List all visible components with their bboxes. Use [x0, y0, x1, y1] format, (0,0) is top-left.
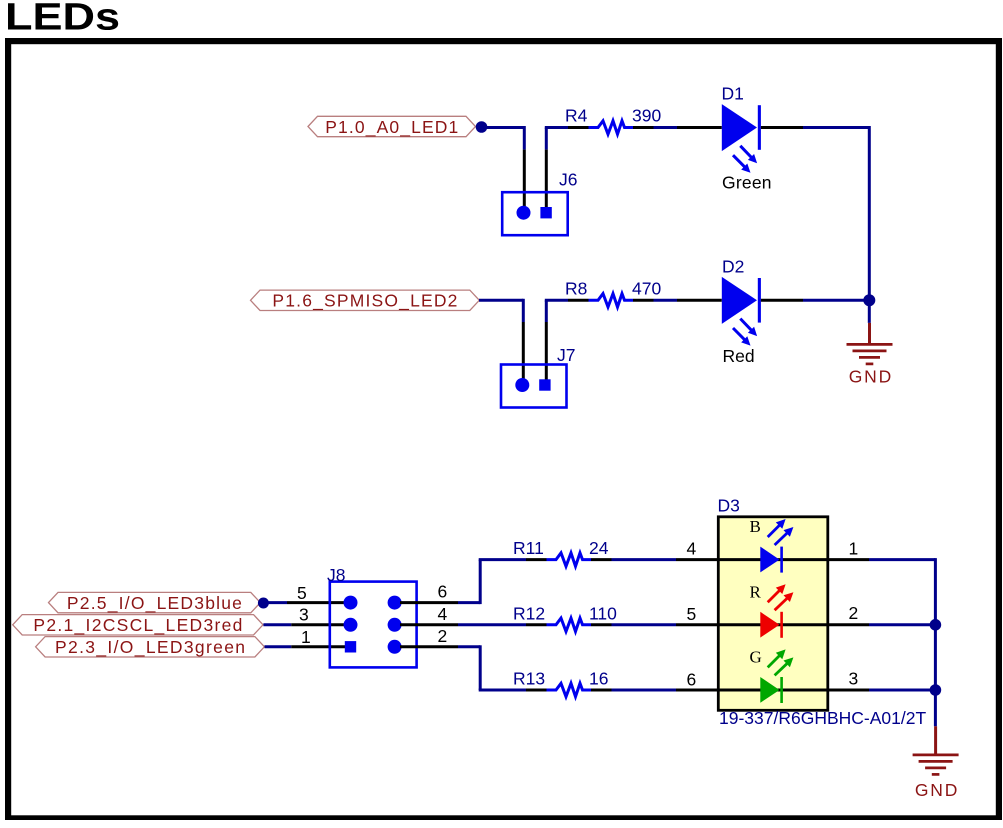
- pin number 3: [849, 669, 859, 689]
- value 470: [632, 279, 661, 299]
- designator R12: [513, 603, 545, 623]
- net label P1.0_A0_LED1: [308, 116, 476, 138]
- label Red: [723, 346, 755, 366]
- svg-text:19-337/R6GHBHC-A01/2T: 19-337/R6GHBHC-A01/2T: [719, 708, 926, 728]
- wire D3 pin 3 to GND bus: [869, 689, 935, 692]
- wire P2.5 to J8 pin 5: [263, 601, 287, 604]
- svg-text:6: 6: [438, 582, 448, 602]
- pin number 2: [438, 626, 448, 646]
- svg-text:P2.3_I/O_LED3green: P2.3_I/O_LED3green: [55, 637, 245, 658]
- J8 pin 4 lead: [400, 623, 458, 626]
- pin number 1: [849, 539, 859, 559]
- svg-text:5: 5: [687, 604, 697, 624]
- D3 pin 6 lead: [676, 689, 719, 692]
- value 16: [589, 669, 608, 689]
- svg-text:GND: GND: [915, 780, 958, 800]
- svg-text:4: 4: [438, 604, 448, 624]
- pin number 4: [687, 539, 697, 559]
- J6 pin 1 lead: [523, 150, 526, 207]
- resistor R13: [526, 683, 612, 696]
- resistor R12: [526, 618, 612, 631]
- svg-text:3: 3: [299, 605, 309, 625]
- svg-text:R12: R12: [513, 603, 545, 623]
- designator R8: [565, 279, 587, 299]
- svg-text:J8: J8: [327, 565, 345, 585]
- resistor R4: [568, 121, 654, 134]
- wire from J6 pin 2 to R4: [545, 128, 568, 150]
- svg-text:110: 110: [589, 603, 617, 623]
- value 390: [632, 106, 661, 126]
- junction dot pin3/bus: [930, 684, 942, 696]
- pin number 5: [687, 604, 697, 624]
- svg-text:J6: J6: [559, 170, 577, 190]
- value 110: [589, 603, 617, 623]
- svg-text:4: 4: [687, 539, 697, 559]
- svg-text:P2.1_I2CSCL_LED3red: P2.1_I2CSCL_LED3red: [33, 615, 242, 636]
- svg-text:R: R: [750, 582, 762, 601]
- svg-text:6: 6: [687, 670, 697, 690]
- part number 19-337/R6GHBHC-A01/2T: [719, 708, 926, 728]
- junction dot on net P2.5_I/O_LED3blue: [258, 598, 269, 609]
- title LEDs: [5, 0, 120, 39]
- pin number 6: [438, 582, 448, 602]
- svg-text:P1.6_SPMISO_LED2: P1.6_SPMISO_LED2: [272, 291, 457, 312]
- svg-text:R4: R4: [565, 106, 588, 126]
- net label P2.1_I2CSCL_LED3red: [13, 615, 263, 637]
- J8 pin 1 lead: [291, 645, 345, 648]
- J7 pin 1 lead: [522, 322, 525, 380]
- svg-text:16: 16: [589, 669, 608, 689]
- wire J8 pin 6 to R11: [458, 560, 526, 605]
- svg-text:2: 2: [438, 626, 448, 646]
- jumper J6: [502, 170, 577, 236]
- D3 pin 3 lead: [828, 689, 870, 692]
- resistor R8: [568, 294, 654, 307]
- label Green: [722, 173, 772, 193]
- designator R11: [513, 538, 544, 558]
- resistor R11: [526, 553, 612, 566]
- wire J8 pin 2 to R13: [458, 645, 526, 690]
- svg-text:5: 5: [297, 583, 307, 603]
- designator D2: [722, 257, 744, 277]
- wire R12 to D3: [612, 623, 677, 626]
- blue LED element in D3: [760, 519, 793, 573]
- wire from P1.0_A0_LED1 to J6 pin 1: [482, 126, 525, 150]
- J8 pin 2 lead: [400, 645, 458, 648]
- J7 pin 2 lead: [545, 322, 548, 380]
- wire R4 to D1: [654, 126, 678, 129]
- net label P2.3_I/O_LED3green: [36, 637, 265, 659]
- jumper J7: [501, 345, 575, 408]
- svg-text:G: G: [750, 648, 762, 667]
- svg-text:R8: R8: [565, 279, 587, 299]
- svg-text:P2.5_I/O_LED3blue: P2.5_I/O_LED3blue: [67, 593, 242, 614]
- pin number 3: [299, 605, 309, 625]
- designator D3: [718, 496, 740, 516]
- svg-text:J7: J7: [557, 345, 575, 365]
- svg-text:3: 3: [849, 669, 859, 689]
- D2 cathode pin: [761, 299, 803, 302]
- junction dot on net P1.0_A0_LED1: [476, 121, 488, 133]
- svg-text:B: B: [750, 517, 761, 536]
- ground symbol GND (bottom): [913, 726, 959, 800]
- pin number 6: [687, 670, 697, 690]
- svg-text:470: 470: [632, 279, 661, 299]
- wire P2.1 to J8 pin 3: [263, 623, 291, 626]
- D3 pin 1 lead: [828, 558, 870, 561]
- J6 pin 2 lead: [545, 150, 548, 207]
- svg-text:D1: D1: [722, 84, 744, 104]
- wire R13 to D3: [612, 689, 677, 692]
- value 24: [589, 538, 609, 558]
- D3 pin 4 lead: [676, 558, 719, 561]
- net label P2.5_I/O_LED3blue: [49, 592, 261, 614]
- svg-text:1: 1: [301, 627, 311, 647]
- wire D2 to GND node: [803, 299, 869, 302]
- wire stub to ground GND (bottom): [934, 690, 937, 726]
- junction dot pin2/bus: [930, 619, 942, 631]
- wire J8 pin 4 to R12: [458, 623, 526, 626]
- D3 pin 5 lead: [676, 623, 719, 626]
- designator R13: [513, 669, 545, 689]
- wire D3 pin 2 to GND bus: [869, 623, 935, 626]
- wire D1 to GND node: [803, 126, 869, 300]
- wire from J7 pin 2 to R8: [545, 300, 568, 322]
- header J8: [330, 582, 417, 668]
- junction dot at GND node: [863, 294, 875, 306]
- D1 cathode pin: [761, 126, 803, 129]
- red LED element in D3: [760, 584, 793, 638]
- wire D3 pin 1 to GND bus: [869, 558, 935, 625]
- svg-text:D2: D2: [722, 257, 744, 277]
- wire R8 to D2: [654, 299, 678, 302]
- pin number 4: [438, 604, 448, 624]
- wire from P1.6_SPMISO_LED2 to J7 pin 1: [479, 299, 523, 322]
- svg-text:R11: R11: [513, 538, 544, 558]
- svg-text:Red: Red: [723, 346, 755, 366]
- LED D2: [722, 277, 761, 346]
- svg-text:D3: D3: [718, 496, 740, 516]
- RGB LED D3 body: [718, 517, 828, 711]
- letter R: [750, 582, 762, 601]
- pin number 1: [301, 627, 311, 647]
- wire P2.3 to J8 pin 1: [265, 645, 292, 648]
- svg-text:1: 1: [849, 539, 859, 559]
- svg-text:LEDs: LEDs: [5, 0, 120, 39]
- svg-text:24: 24: [589, 538, 609, 558]
- pin number 2: [849, 603, 859, 623]
- designator R4: [565, 106, 588, 126]
- J8 pin 5 lead: [287, 601, 345, 604]
- wire R11 to D3: [612, 558, 677, 561]
- D3 pin 2 lead: [828, 623, 870, 626]
- svg-text:390: 390: [632, 106, 661, 126]
- ground symbol GND (top): [847, 323, 893, 387]
- wire stub to ground GND: [868, 300, 871, 323]
- svg-text:2: 2: [849, 603, 859, 623]
- letter B: [750, 517, 761, 536]
- designator D1: [722, 84, 744, 104]
- D2 anode pin: [677, 299, 722, 302]
- svg-text:GND: GND: [849, 367, 892, 387]
- svg-text:Green: Green: [722, 173, 772, 193]
- designator J8: [327, 565, 345, 585]
- J8 pin 3 lead: [291, 623, 345, 626]
- svg-text:R13: R13: [513, 669, 545, 689]
- J8 pin 6 lead: [400, 601, 458, 604]
- svg-text:P1.0_A0_LED1: P1.0_A0_LED1: [325, 117, 458, 138]
- LED D1: [722, 104, 761, 173]
- D1 anode pin: [677, 126, 722, 129]
- net label P1.6_SPMISO_LED2: [251, 290, 480, 312]
- green LED element in D3: [760, 649, 793, 703]
- letter G: [750, 648, 762, 667]
- wire GND bus down: [934, 625, 937, 690]
- pin number 5: [297, 583, 307, 603]
